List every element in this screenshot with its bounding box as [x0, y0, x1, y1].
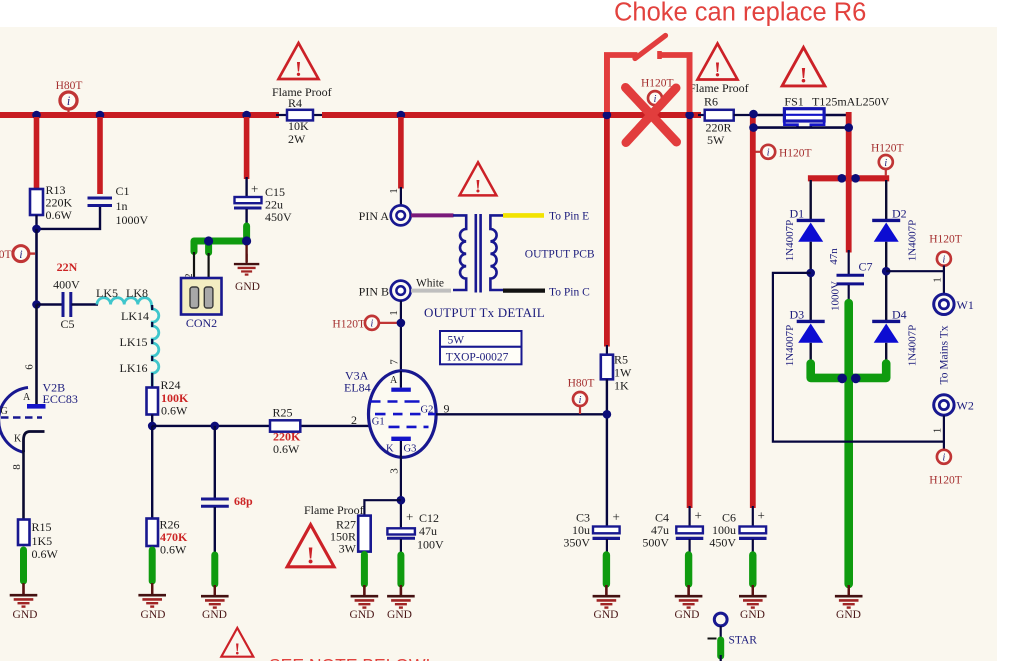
- wire: yellow link to Pin E: [503, 213, 544, 218]
- svg-text:GND: GND: [350, 609, 375, 621]
- svg-text:1N4007P: 1N4007P: [784, 325, 796, 367]
- svg-text:0.6W: 0.6W: [32, 547, 59, 561]
- marker H120T circle below W2: [937, 450, 951, 464]
- svg-text:EL84: EL84: [344, 381, 371, 395]
- wire: lead into R6: [698, 114, 706, 116]
- diode D1: [797, 220, 825, 241]
- pin tick marks above CON2 pins: [190, 285, 213, 287]
- wire: W1 top lead: [943, 266, 945, 295]
- wire: green elbow from D3: [811, 364, 849, 378]
- wire: cathode down to junction: [400, 455, 402, 529]
- wire: G2 to R5 node: [436, 413, 607, 415]
- svg-text:R6: R6: [704, 95, 718, 109]
- svg-text:3: 3: [389, 468, 401, 474]
- wire: dark red stub to GND at C15: [245, 245, 247, 262]
- svg-text:LK16: LK16: [120, 361, 148, 375]
- ground under green bus: [835, 585, 863, 608]
- warning triangle above R4: [279, 43, 319, 81]
- diode D4: [872, 321, 900, 342]
- node: D2/D4 tap: [882, 267, 891, 276]
- svg-text:1N4007P: 1N4007P: [784, 220, 796, 262]
- warning triangle bottom centre: [221, 628, 253, 658]
- label R13 values: [46, 183, 73, 222]
- svg-text:GND: GND: [594, 609, 619, 621]
- node: fuse left bottom junction: [749, 123, 758, 132]
- resistor R26: [147, 519, 159, 547]
- svg-text:1: 1: [932, 428, 944, 434]
- node: rail junction at C4 drop: [685, 111, 694, 120]
- svg-text:C5: C5: [60, 317, 74, 331]
- capacitor C4 electrolytic: [676, 527, 704, 539]
- node: 68p junction: [211, 422, 220, 431]
- svg-text:D4: D4: [892, 308, 907, 322]
- box 5W: [440, 331, 522, 347]
- wire: red top bar of bridge: [808, 175, 889, 181]
- svg-text:To Mains Tx: To Mains Tx: [939, 325, 951, 384]
- wire: star bottom stub: [720, 655, 722, 661]
- svg-text:100V: 100V: [417, 538, 444, 552]
- svg-text:+: +: [695, 508, 702, 523]
- svg-text:0.6W: 0.6W: [46, 208, 73, 222]
- svg-text:C7: C7: [859, 260, 873, 274]
- svg-text:GND: GND: [13, 609, 38, 621]
- label R27 values: [330, 518, 357, 556]
- resistor R4: [287, 110, 313, 121]
- svg-text:H120T: H120T: [332, 319, 365, 331]
- resistor R24: [147, 388, 159, 415]
- wire: green earth blob under C3: [603, 555, 610, 584]
- ground under C4: [675, 585, 703, 608]
- label C15 plus and values: [251, 181, 292, 224]
- svg-text:GND: GND: [141, 609, 166, 621]
- warning triangle above R6: [698, 44, 738, 82]
- label R15 values: [32, 520, 59, 561]
- white top margin band: [0, 0, 1024, 27]
- label R4 value: [272, 85, 332, 146]
- terminal PIN A: [391, 205, 411, 225]
- svg-text:GND: GND: [740, 609, 765, 621]
- transformer secondary winding: [490, 215, 504, 290]
- wire: D1/D3 tap to W2 long path: [773, 273, 944, 442]
- svg-text:2W: 2W: [288, 132, 306, 146]
- wire: green stub down to CON2 pin 1: [205, 241, 212, 253]
- resistor R5: [601, 355, 613, 380]
- wire: lead into C6: [752, 506, 754, 527]
- svg-text:350V: 350V: [563, 536, 590, 550]
- svg-text:GND: GND: [387, 609, 412, 621]
- svg-text:H120T: H120T: [929, 475, 962, 487]
- wire: green earth blob under R15: [20, 550, 27, 581]
- svg-text:H80T: H80T: [0, 249, 12, 261]
- svg-text:7: 7: [389, 359, 401, 365]
- diode D2: [872, 220, 900, 241]
- wire: red drop rail to R13: [34, 117, 40, 190]
- svg-text:A: A: [23, 392, 31, 403]
- wire: C6 bottom lead: [752, 539, 754, 555]
- wire: red drop fuse to C7: [846, 112, 852, 253]
- wire: junction down to C5 node: [35, 229, 38, 305]
- node: green junction at CON2 pin 1: [204, 236, 213, 245]
- svg-text:R24: R24: [161, 378, 181, 392]
- wire: C1 bottom corner to junction: [37, 207, 101, 229]
- transformer core lines: [476, 214, 481, 293]
- resistor R25: [270, 420, 300, 431]
- svg-text:W2: W2: [957, 399, 974, 413]
- box TXOP-00027: [440, 347, 522, 365]
- marker H120T circle below fuse: [754, 145, 775, 159]
- svg-text:+: +: [406, 509, 413, 524]
- svg-text:47n: 47n: [828, 248, 840, 265]
- ground under R27: [351, 585, 379, 608]
- wire: cathode lead inside tube: [400, 441, 402, 457]
- wire: R24 bottom to junction: [151, 415, 153, 428]
- wire: PIN B down to H120T node: [400, 301, 402, 388]
- capacitor C7: [837, 275, 865, 284]
- svg-text:0.6W: 0.6W: [161, 404, 188, 418]
- wire: junction left and down to R27: [364, 500, 401, 516]
- svg-text:R25: R25: [273, 406, 293, 420]
- svg-text:8: 8: [11, 464, 23, 470]
- wire: purple link PIN A to transformer: [411, 213, 454, 217]
- wire: R5 bottom through junction to C3: [606, 379, 608, 527]
- node: rail junction at PIN A drop: [397, 111, 406, 120]
- svg-text:H120T: H120T: [641, 78, 674, 90]
- svg-text:Choke can replace R6: Choke can replace R6: [614, 0, 866, 27]
- wire: red drop rail to C15: [244, 117, 250, 179]
- svg-text:GND: GND: [675, 609, 700, 621]
- label C1 values: [116, 184, 149, 227]
- svg-text:1: 1: [932, 277, 944, 283]
- label C6 plus and values: [709, 508, 765, 550]
- svg-text:K: K: [14, 434, 22, 445]
- wire: R13 bottom to junction: [35, 215, 37, 229]
- wire: white link PIN B to transformer: [411, 289, 451, 293]
- ground under 68p: [201, 585, 229, 608]
- tube V3A grid row 2: [375, 413, 436, 416]
- wire: junction down to R26: [151, 426, 153, 519]
- wire: green earth link horizontal bar with elbow: [194, 241, 247, 252]
- wire: anode feed down to V2B: [35, 305, 38, 405]
- svg-text:GND: GND: [836, 609, 861, 621]
- node: R13/C1 junction: [32, 225, 41, 234]
- svg-text:TXOP-00027: TXOP-00027: [446, 352, 509, 364]
- svg-text:H120T: H120T: [779, 148, 812, 160]
- annotation switch contact tick: [657, 51, 662, 59]
- node: green bus dot right: [851, 374, 861, 384]
- wire: lead into R5: [606, 345, 608, 356]
- svg-text:R5: R5: [614, 353, 628, 367]
- wire: rail lead out of R4 right: [312, 114, 324, 116]
- ground under C12: [387, 585, 415, 608]
- svg-text:ECC83: ECC83: [43, 392, 78, 406]
- svg-text:0.6W: 0.6W: [160, 543, 187, 557]
- svg-text:K: K: [386, 444, 394, 455]
- svg-text:LK8: LK8: [126, 286, 148, 300]
- svg-text:G1: G1: [372, 417, 385, 428]
- wire: green elbow from D4: [849, 364, 887, 378]
- svg-text:LK15: LK15: [120, 335, 148, 349]
- wire: black link to Pin C: [503, 289, 545, 293]
- label R25 values: [273, 406, 302, 457]
- wire: D3 to green elbow: [810, 343, 812, 366]
- wire: lead to PIN A terminal: [400, 187, 402, 205]
- ground at C15: [234, 254, 259, 275]
- wire: tick left of star blob: [708, 638, 717, 640]
- wire: bar to D2: [885, 180, 887, 220]
- wire: green earth blob under C4: [685, 555, 692, 584]
- svg-text:FS1: FS1: [784, 95, 803, 109]
- svg-text:1n: 1n: [116, 199, 128, 213]
- wire: green earth link vertical from C15: [243, 226, 250, 241]
- svg-text:+: +: [758, 508, 765, 523]
- ground under C3: [593, 585, 621, 608]
- svg-text:1: 1: [388, 310, 400, 316]
- svg-text:SEE NOTE BELOW!: SEE NOTE BELOW!: [269, 655, 430, 661]
- svg-text:C12: C12: [419, 511, 439, 525]
- svg-text:450V: 450V: [265, 210, 292, 224]
- node: bar junction left of drop: [838, 174, 847, 183]
- svg-text:R15: R15: [32, 520, 52, 534]
- warning triangle at R27: [287, 525, 334, 570]
- capacitor C6 electrolytic: [739, 527, 767, 539]
- tube V3A grid row 1: [370, 400, 420, 403]
- svg-text:+: +: [613, 509, 620, 524]
- wire: C12 bottom lead: [400, 539, 402, 555]
- wire: R6 to fuse node: [734, 114, 755, 116]
- wire: grid line junction to tube V3A: [152, 425, 370, 427]
- svg-text:Flame Proof: Flame Proof: [689, 81, 749, 95]
- svg-text:68p: 68p: [234, 494, 253, 508]
- tube V2B envelope arc: [0, 388, 28, 453]
- svg-text:47u: 47u: [419, 524, 437, 538]
- svg-text:G2: G2: [421, 405, 434, 416]
- svg-text:G3: G3: [404, 444, 417, 455]
- svg-text:D2: D2: [892, 207, 907, 221]
- svg-text:A: A: [390, 375, 398, 386]
- capacitor C3 electrolytic: [593, 527, 621, 539]
- wire: fuse lower bypass: [754, 126, 849, 129]
- wire: bar to D1: [810, 180, 812, 220]
- capacitor C1: [88, 198, 113, 206]
- wire: main HT rail centre segment: [322, 112, 701, 118]
- label C3 plus and values: [563, 509, 620, 550]
- label C5 values: [53, 260, 80, 331]
- wire: 68p top lead: [214, 426, 216, 498]
- node: junction at C5: [32, 300, 41, 309]
- node: cathode junction: [397, 496, 406, 505]
- capacitor 68p: [201, 499, 229, 506]
- wire: W2 bottom lead: [943, 416, 945, 451]
- node: rail junction at R13: [32, 111, 41, 120]
- node: D1/D3 tap: [806, 269, 815, 278]
- svg-text:1K: 1K: [614, 379, 629, 393]
- resistor R15: [18, 520, 30, 546]
- label R24 values: [161, 378, 190, 418]
- capacitor C12 electrolytic: [387, 528, 415, 538]
- terminal STAR circle: [714, 613, 727, 626]
- wire: green earth blob under 68p: [211, 555, 218, 584]
- svg-text:5W: 5W: [707, 133, 725, 147]
- inductor LK14/LK15/LK16 vertical coil: [151, 305, 158, 387]
- wire: C7 bottom lead: [848, 285, 850, 305]
- svg-text:5W: 5W: [448, 335, 465, 347]
- svg-text:C1: C1: [116, 184, 130, 198]
- wire: green HT return main vertical: [844, 303, 853, 584]
- svg-text:1W: 1W: [614, 366, 632, 380]
- marker H120T circle at PIN B: [365, 316, 400, 330]
- wire: C3 bottom lead: [606, 539, 608, 555]
- node: rail junction at choke left: [603, 111, 612, 120]
- wire: lead into C4: [688, 506, 690, 527]
- wire: D4 to green elbow: [885, 343, 887, 366]
- resistor R6: [705, 110, 734, 121]
- wire: red drop to C4: [687, 54, 693, 508]
- wire: CON2 pin 1 lead: [208, 253, 210, 286]
- node: bypass right junction: [844, 123, 853, 132]
- wire: anode lead inside tube: [400, 371, 402, 388]
- svg-text:D3: D3: [790, 308, 805, 322]
- node: R5/G2 junction: [603, 410, 612, 419]
- svg-text:White: White: [416, 278, 444, 290]
- warning triangle above transformer: [460, 162, 497, 197]
- fuse FS1: [784, 109, 824, 128]
- annotation choke box with switch break: [607, 55, 690, 112]
- terminal PIN B: [391, 281, 411, 301]
- wire: C7 top lead: [848, 250, 850, 274]
- node: green bus dot left: [837, 374, 847, 384]
- svg-text:T125mAL250V: T125mAL250V: [812, 95, 890, 109]
- wire: star lead: [720, 626, 722, 640]
- svg-text:OUTPUT Tx DETAIL: OUTPUT Tx DETAIL: [424, 305, 545, 320]
- svg-text:450V: 450V: [709, 536, 736, 550]
- wire: C5 right plate to coil: [72, 303, 99, 305]
- svg-text:1K5: 1K5: [32, 534, 53, 548]
- svg-text:1000V: 1000V: [116, 213, 149, 227]
- wire: red drop to C6: [750, 115, 756, 508]
- tube V3A cathode plate: [391, 437, 411, 441]
- annotation switch blade diagonal: [635, 36, 666, 59]
- svg-text:H120T: H120T: [871, 143, 904, 155]
- tube V3A envelope: [369, 371, 437, 458]
- wire: main HT rail left segment: [0, 112, 279, 118]
- svg-text:G: G: [1, 406, 8, 417]
- node: green junction at C15: [242, 236, 251, 245]
- node: bar junction right of drop: [851, 174, 860, 183]
- svg-text:H120T: H120T: [929, 234, 962, 246]
- svg-text:W1: W1: [957, 298, 974, 312]
- wire: green earth blob under R26: [149, 550, 156, 581]
- wire: red drop rail to C1: [97, 117, 103, 194]
- wire: black dashes over vertical coil: [151, 305, 153, 387]
- svg-text:PIN B: PIN B: [359, 285, 389, 299]
- capacitor C15 electrolytic: [234, 197, 262, 208]
- wire: D2/D4 tap to W1: [886, 270, 944, 272]
- svg-text:GND: GND: [235, 281, 260, 293]
- wire: node to fuse body: [754, 114, 786, 116]
- connector CON2: [181, 278, 222, 315]
- wire: red drop rail to PIN A: [398, 117, 404, 189]
- svg-text:H80T: H80T: [56, 80, 83, 92]
- node: rail junction at C15: [242, 111, 251, 120]
- label R26 values: [160, 518, 189, 557]
- ground under C6: [739, 585, 767, 608]
- svg-text:D1: D1: [790, 207, 805, 221]
- svg-text:LK14: LK14: [121, 309, 149, 323]
- tube V3A anode plate: [391, 388, 411, 392]
- svg-text:CON2: CON2: [186, 316, 217, 330]
- svg-text:1N4007P: 1N4007P: [907, 220, 919, 262]
- diode D3: [797, 321, 825, 342]
- marker H120T circle above W1: [937, 252, 951, 266]
- warning triangle above FS1: [782, 47, 825, 87]
- svg-text:400V: 400V: [53, 278, 80, 292]
- svg-text:3W: 3W: [339, 542, 357, 556]
- marker H120T circle above D2: [879, 155, 893, 176]
- wire: D2 to D4: [885, 242, 887, 321]
- annotation X cross stroke 1: [626, 88, 677, 143]
- svg-text:500V: 500V: [642, 536, 669, 550]
- svg-text:1N4007P: 1N4007P: [907, 325, 919, 367]
- wire: red drop from rail to R5: [604, 54, 610, 347]
- marker H120T circle inside choke box: [648, 91, 662, 105]
- resistor R27: [358, 516, 371, 552]
- terminal W1: [934, 294, 954, 314]
- marker H80T circle top left: [60, 92, 77, 113]
- wire: C15 bottom lead: [245, 209, 247, 227]
- wire: lead into C15: [245, 177, 247, 197]
- tube V2B anode plate: [27, 404, 46, 409]
- wire: junction to C5 left plate: [37, 303, 63, 305]
- node: R24/R26 junction: [148, 422, 157, 431]
- ground under R26: [138, 583, 166, 607]
- svg-text:0.6W: 0.6W: [273, 442, 300, 456]
- marker H80T circle at R5: [573, 392, 587, 414]
- wire: green earth blob under C12: [397, 555, 404, 584]
- label C4 plus and values: [642, 508, 702, 550]
- node: fuse left top junction: [749, 110, 758, 119]
- svg-text:R4: R4: [288, 96, 302, 110]
- svg-text:22N: 22N: [57, 260, 78, 274]
- svg-text:6: 6: [24, 364, 36, 370]
- svg-text:OUTPUT PCB: OUTPUT PCB: [525, 249, 595, 261]
- tube V2B cathode: [24, 432, 45, 453]
- svg-text:+: +: [251, 181, 258, 196]
- label R5 values: [614, 353, 632, 393]
- wire: 68p bottom lead: [214, 507, 216, 554]
- svg-text:PIN A: PIN A: [359, 209, 390, 223]
- wire: rail lead into R4 left: [276, 114, 288, 116]
- wire: green earth blob under R27: [361, 555, 368, 585]
- white right margin band: [997, 0, 1024, 661]
- svg-text:10K: 10K: [288, 119, 309, 133]
- wire: CON2 pin 2 lead: [193, 252, 195, 286]
- svg-text:H80T: H80T: [568, 378, 595, 390]
- label C12 plus and values: [406, 509, 444, 552]
- marker H80T circle left edge: [13, 246, 35, 262]
- svg-text:To Pin C: To Pin C: [549, 287, 590, 299]
- node: PIN B junction: [397, 319, 406, 328]
- svg-text:1: 1: [388, 188, 400, 194]
- inductor LK5/LK8 horizontal coil: [97, 298, 151, 305]
- label R6 values: [706, 121, 732, 148]
- svg-text:1000V: 1000V: [830, 281, 842, 311]
- tube V2B grid dashed: [1, 416, 42, 418]
- capacitor C5: [63, 292, 71, 317]
- transformer primary winding: [453, 215, 466, 290]
- svg-text:STAR: STAR: [729, 635, 758, 647]
- wire: green earth blob under C6: [749, 555, 756, 584]
- svg-text:GND: GND: [202, 609, 227, 621]
